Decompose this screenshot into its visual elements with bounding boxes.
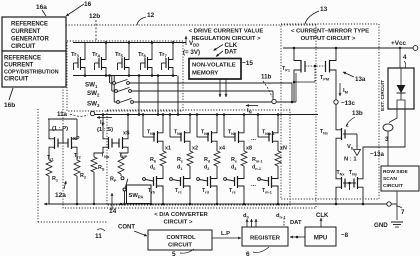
wire: Tr2 drain from node (48, 118, 77, 120)
svg-text:x8: x8 (246, 146, 252, 152)
svg-text:14: 14 (109, 208, 117, 215)
wire terminal 3 to row scan (387, 131, 389, 166)
svg-text:16a: 16a (36, 4, 47, 11)
wire to terminal 3 (389, 109, 397, 123)
svg-text:REFERENCE: REFERENCE (11, 22, 48, 28)
gate tie TNa-TNP (112, 142, 119, 144)
svg-text:CURRENT: CURRENT (11, 29, 41, 35)
svg-text:~15: ~15 (242, 60, 253, 67)
wire bus drop to SW3 (113, 76, 115, 103)
svg-text:13: 13 (320, 6, 328, 13)
svg-text:...: ... (251, 182, 256, 188)
switch transistor Trb (162, 166, 164, 178)
dashed box 11 partial outline (37, 109, 39, 222)
diode D (light emitting element) (400, 68, 402, 85)
D/A cell transistor TNb (143, 136, 154, 138)
bias label Vb (356, 134, 358, 149)
svg-text:CIRCUIT: CIRCUIT (383, 183, 403, 189)
svg-text:+Vcc: +Vcc (391, 40, 407, 47)
node 13c (334, 100, 338, 104)
svg-text:11b: 11b (261, 74, 272, 81)
svg-text:x4: x4 (219, 146, 225, 152)
svg-text:(= 3V): (= 3V) (183, 49, 200, 56)
svg-text:(1 : S): (1 : S) (97, 127, 113, 133)
svg-text:EXT. CIRCUIT: EXT. CIRCUIT (380, 80, 386, 111)
box 6: register (242, 227, 288, 246)
svg-text:IP: IP (100, 120, 105, 126)
current IM arrow (339, 83, 341, 96)
switch transistor Trd (216, 166, 218, 178)
Vdd arrow and label (185, 36, 187, 45)
TNx source to rail (335, 191, 337, 205)
svg-text:12b: 12b (89, 13, 100, 20)
D/A cell transistor TNm-1 (258, 136, 269, 138)
dashed box 12: drive current value regulation circuit (63, 25, 316, 208)
svg-text:16b: 16b (4, 102, 15, 109)
svg-text:x2: x2 (192, 146, 198, 152)
D/A cell transistor TNe (224, 136, 235, 138)
node 11b (272, 99, 276, 103)
svg-text:< D/A CONVERTER: < D/A CONVERTER (154, 212, 208, 218)
resistor Re (243, 145, 245, 152)
wire bus drop to SW2 (111, 76, 113, 92)
rail to ground drop (391, 203, 397, 205)
wire: output return from LED to TNy drain (363, 109, 405, 176)
external circuit box with light-emitting diode (388, 68, 414, 109)
wire row scan to ground rail (396, 191, 398, 204)
svg-text:Tr7: Tr7 (159, 52, 167, 58)
resistor R2 (76, 151, 78, 161)
svg-text:5: 5 (172, 251, 176, 256)
svg-text:Tr6: Tr6 (138, 52, 146, 58)
svg-text:CLK: CLK (316, 213, 329, 219)
box: row side scan circuit (381, 166, 419, 191)
svg-text:REFERENCE: REFERENCE (4, 56, 41, 62)
svg-text:xN: xN (280, 146, 287, 152)
wire TP1 drain to node 11b (276, 101, 294, 103)
resistor Rc (189, 145, 191, 152)
svg-text:xS: xS (123, 131, 130, 137)
dashed box 14: D/A converter cell array (107, 110, 290, 205)
gate tie Tr1-Tr2 (59, 142, 68, 144)
svg-text:OUTPUT CIRCUIT >: OUTPUT CIRCUIT > (301, 36, 356, 42)
dashed box 12b: reference mirror block (67, 41, 183, 111)
svg-text:CONTROL: CONTROL (166, 235, 196, 241)
resistor Rp (127, 151, 129, 154)
resistor Rm-1 (277, 145, 279, 152)
svg-text:NON-VOLATILE: NON-VOLATILE (192, 63, 236, 69)
gate tie TNx TNy (345, 182, 354, 184)
D/A cell transistor TNd (197, 136, 208, 138)
wire from +Vcc rail to LED box (399, 48, 401, 68)
svg-text:CIRCUIT: CIRCUIT (4, 77, 29, 83)
switch transistor Trm-1 (277, 166, 279, 178)
resistor R1 (48, 151, 50, 161)
box 16b: reference current copy/distribution circuit (2, 51, 66, 87)
svg-text:...: ... (251, 136, 256, 142)
resistor Rd (216, 145, 218, 152)
svg-text:13a: 13a (355, 76, 366, 83)
node: bus input circle (90, 111, 94, 115)
svg-text:CONT: CONT (118, 225, 135, 231)
svg-text:DAT: DAT (290, 220, 302, 226)
svg-text:4: 4 (403, 54, 407, 61)
svg-text:MEMORY: MEMORY (192, 71, 218, 77)
svg-text:N : 1: N : 1 (344, 157, 357, 163)
resistor Rs (102, 151, 104, 154)
Vdd rail (73, 42, 186, 44)
wire drop to gate bus B (157, 76, 159, 115)
svg-text:IM: IM (343, 88, 349, 94)
transistor Tr1 (58, 142, 59, 144)
svg-text:x1: x1 (165, 146, 171, 152)
svg-text:Vb: Vb (347, 144, 354, 150)
svg-text:CIRCUIT: CIRCUIT (11, 44, 36, 50)
wire drop to gate bus C (177, 76, 179, 115)
bottom common rail (44, 203, 389, 205)
terminal 3 ellipse (383, 124, 393, 131)
wire bus drop to SW1 (109, 76, 111, 84)
svg-text:11: 11 (95, 233, 102, 240)
svg-text:ROW SIDE: ROW SIDE (383, 169, 408, 175)
svg-text:11a: 11a (57, 111, 68, 118)
memory output arrows to D/A (219, 79, 221, 97)
gate bus wire (95, 114, 318, 116)
box MPU (305, 227, 336, 246)
D/A cell transistor TNc (170, 136, 181, 138)
wire TNv source to TNx drain (335, 142, 337, 176)
switch SWpa (120, 174, 122, 176)
svg-text:~8: ~8 (341, 232, 349, 239)
current Ip arrow (97, 117, 112, 119)
+Vcc terminal (413, 46, 418, 51)
svg-text:7: 7 (401, 209, 405, 216)
svg-text:6: 6 (246, 251, 250, 256)
resistor Rb (162, 145, 164, 152)
svg-text:d0: d0 (243, 213, 250, 219)
switch transistor Tre (243, 166, 245, 178)
svg-text:SWPA: SWPA (129, 193, 144, 199)
svg-text:DAT: DAT (225, 49, 237, 56)
ground symbol GND (396, 204, 398, 220)
svg-text:CIRCUIT: CIRCUIT (168, 243, 192, 249)
switch transistor Trc (189, 166, 191, 178)
gate/drain bus under Tr row (73, 75, 177, 77)
gate tie TP1-TPM (305, 65, 326, 67)
current IN arrow (246, 105, 258, 107)
svg-text:SCAN: SCAN (383, 176, 397, 182)
svg-text:MPU: MPU (314, 236, 327, 242)
svg-text:REGISTER: REGISTER (250, 236, 281, 242)
ground terminal circle (387, 202, 391, 206)
transistor TNa (112, 142, 113, 144)
svg-text:CIRCUIT >: CIRCUIT > (164, 220, 194, 226)
svg-text:dn-1: dn-1 (276, 213, 286, 219)
svg-text:GENERATOR: GENERATOR (11, 37, 49, 43)
box 5: control circuit (148, 230, 212, 250)
dashed box 13: current-mirror type output circuit (281, 24, 379, 199)
svg-text:IN: IN (247, 108, 252, 114)
svg-text:CURRENT: CURRENT (4, 63, 34, 69)
svg-text:~13c: ~13c (341, 100, 355, 107)
svg-text:GND: GND (374, 222, 388, 229)
transistor TNP (118, 142, 119, 144)
register output arrows d0..dn-1 (246, 219, 248, 227)
wire drop to gate bus A (138, 76, 140, 115)
svg-text:(1 : P): (1 : P) (52, 126, 68, 132)
svg-text:16: 16 (84, 1, 92, 8)
svg-text:< DRIVE CURRENT VALUE: < DRIVE CURRENT VALUE (189, 29, 264, 35)
svg-text:xP: xP (73, 136, 80, 142)
TNy source to rail (362, 191, 364, 205)
wire control to register with L.P label (212, 237, 241, 239)
wire CONT to control circuit (134, 231, 147, 236)
svg-text:Tr5: Tr5 (115, 52, 123, 58)
svg-text:12: 12 (147, 12, 155, 19)
svg-text:Tr3: Tr3 (71, 52, 79, 58)
svg-text:< CURRENT–MIRROR TYPE: < CURRENT–MIRROR TYPE (291, 29, 369, 35)
svg-text:COPY/DISTRIBUTION: COPY/DISTRIBUTION (4, 70, 59, 76)
+Vcc rail (283, 47, 413, 49)
box around SWpa label (127, 185, 152, 204)
wire SW1 drop (291, 83, 293, 102)
wire: node 11b to TP1 drain (295, 73, 297, 102)
transistor Tr2 (67, 142, 68, 144)
svg-text:Tr4: Tr4 (92, 52, 100, 58)
box 15: non-volatile memory (189, 59, 241, 80)
svg-text:13b: 13b (352, 110, 363, 117)
wire SW2 drop to node 11b (272, 91, 274, 99)
box 16a: reference current generator circuit (2, 17, 66, 51)
svg-text:~13a: ~13a (370, 151, 384, 158)
svg-text:L.P: L.P (221, 231, 230, 237)
svg-text:12a: 12a (55, 192, 66, 199)
